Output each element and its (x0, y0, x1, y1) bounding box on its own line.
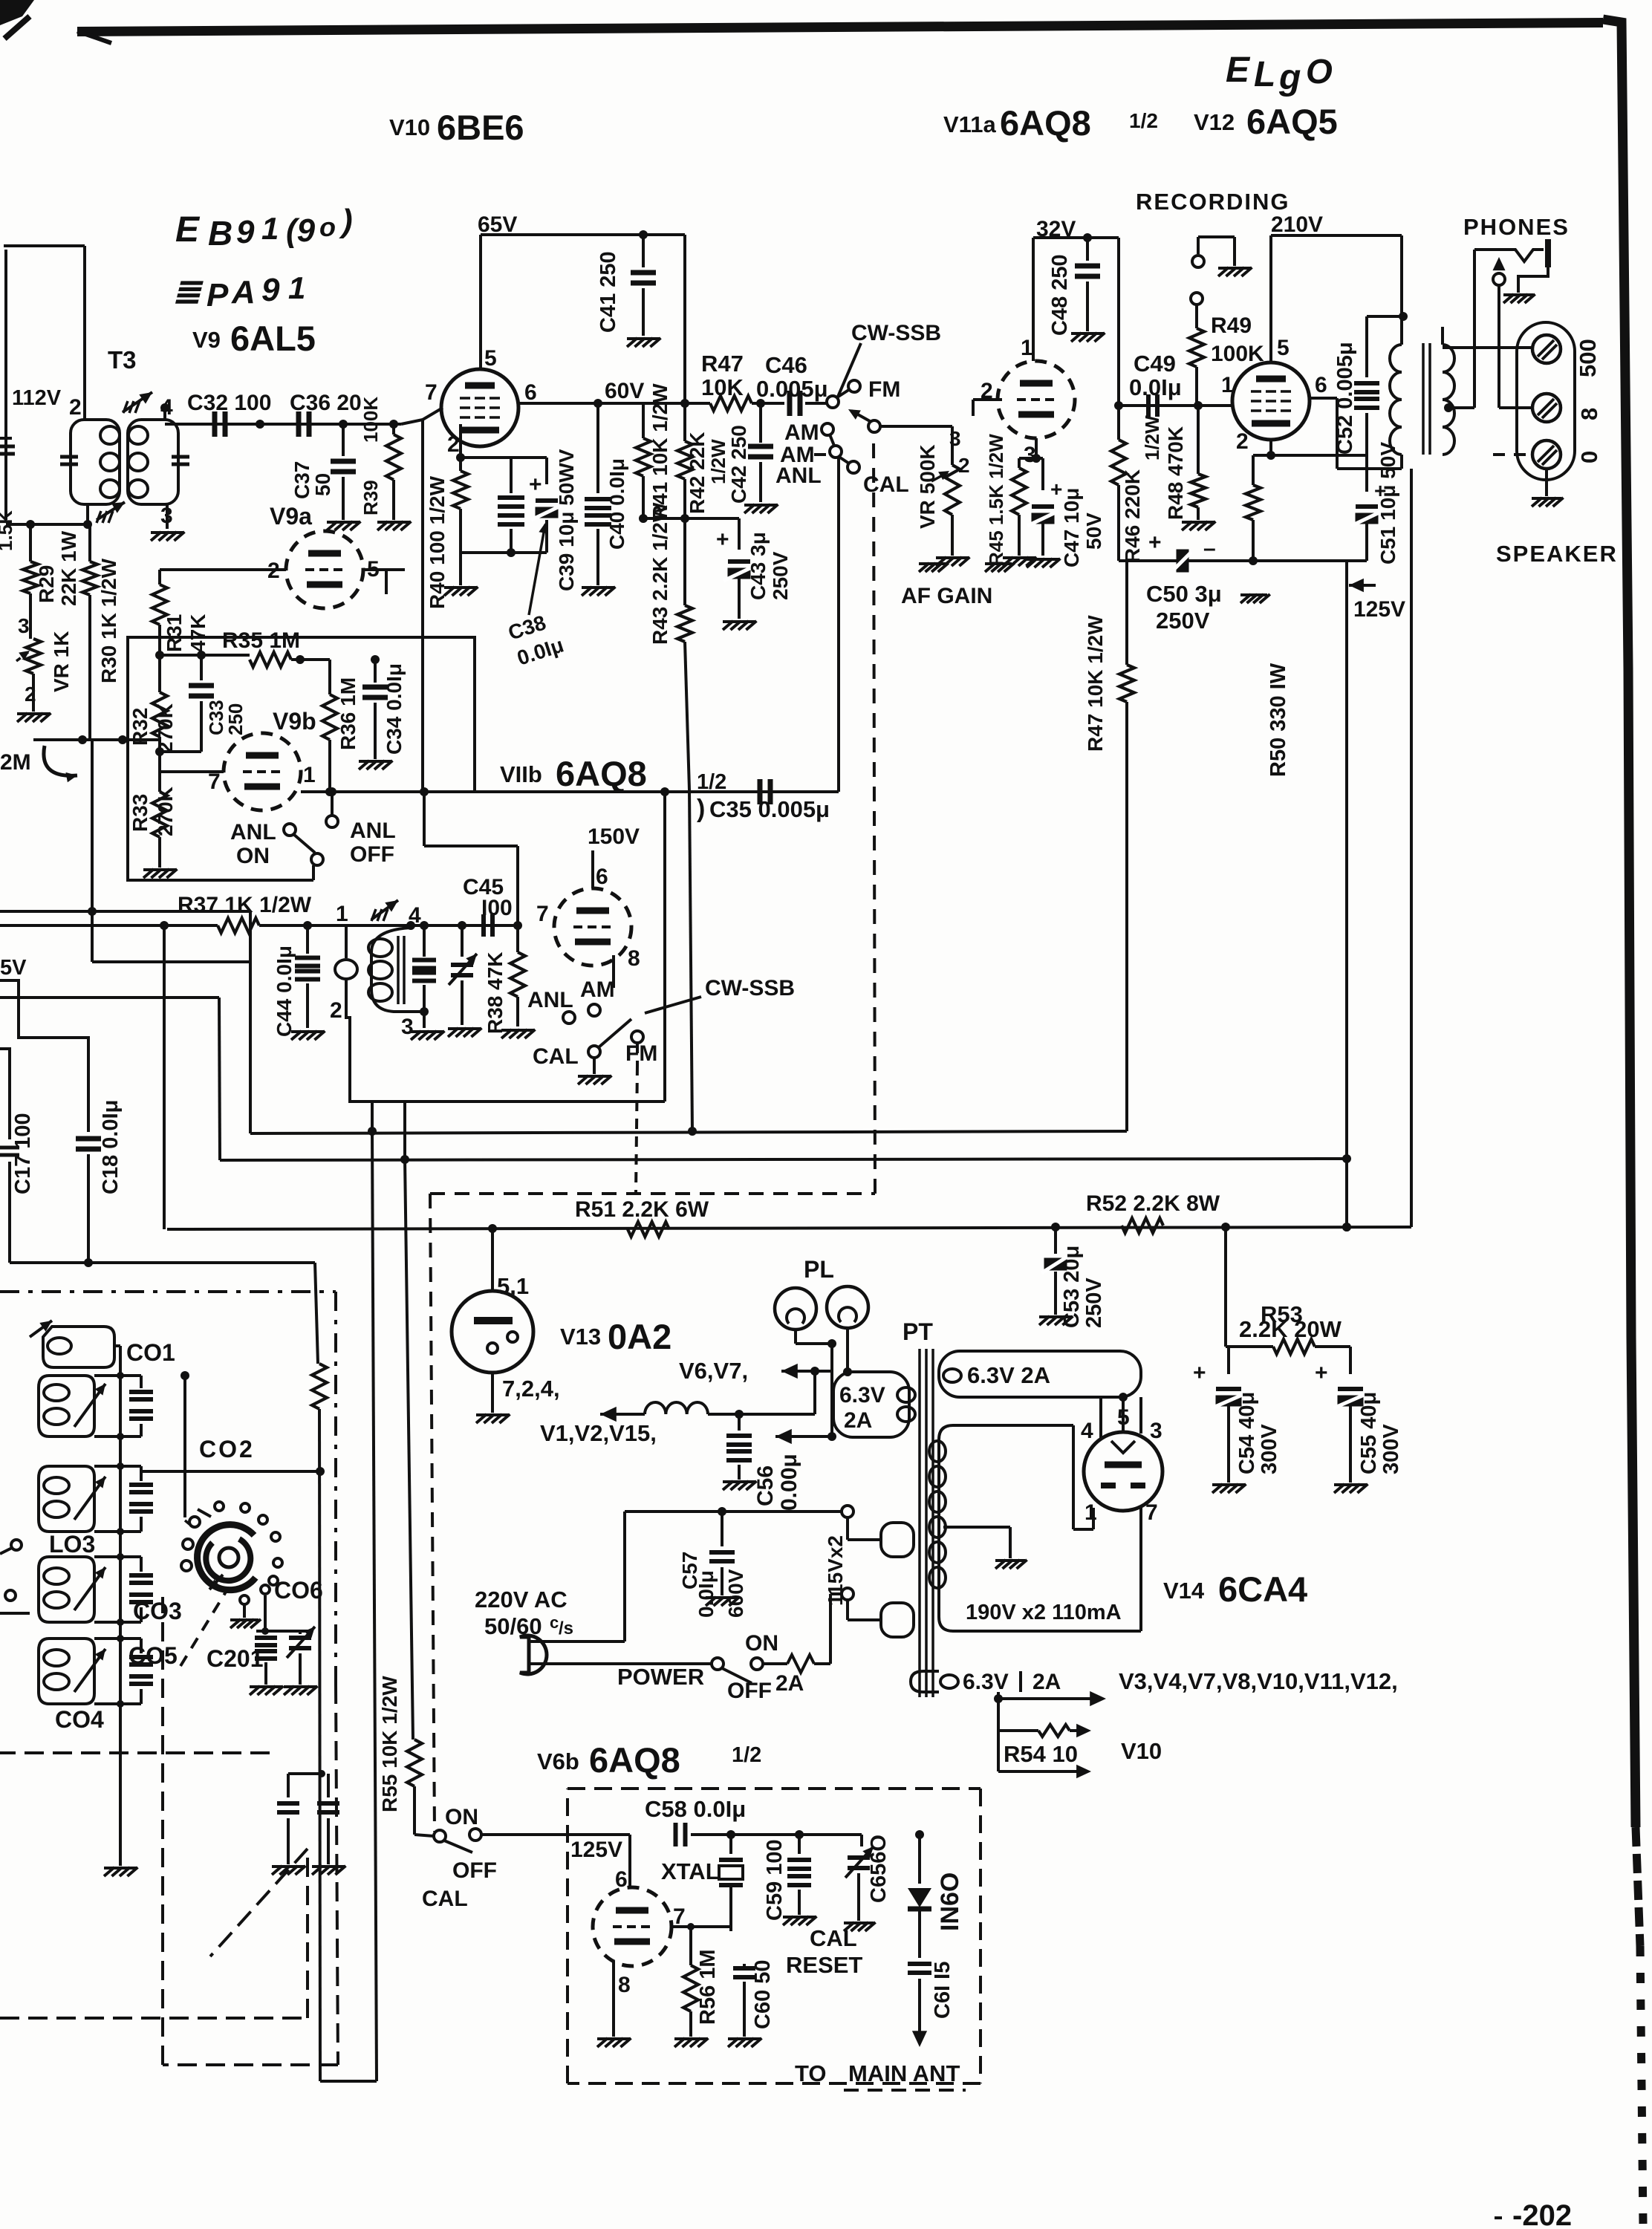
svg-text:6.3V: 6.3V (963, 1670, 1009, 1694)
svg-text:VR 1K: VR 1K (50, 631, 73, 692)
svg-text:7: 7 (536, 902, 549, 926)
svg-text:/s: /s (559, 1618, 573, 1639)
svg-text:C56: C56 (753, 1465, 778, 1506)
svg-text:8: 8 (1576, 408, 1602, 420)
svg-text:P: P (206, 277, 229, 313)
svg-text:C34 0.0Iμ: C34 0.0Iμ (383, 663, 406, 755)
svg-text:125V: 125V (570, 1838, 622, 1862)
svg-text:150V: 150V (588, 824, 640, 849)
svg-text:R36 1M: R36 1M (336, 677, 360, 750)
svg-text:PT: PT (903, 1318, 933, 1345)
svg-text:R47 10K 1/2W: R47 10K 1/2W (1084, 615, 1107, 752)
svg-text:A: A (231, 274, 256, 310)
svg-text:CO6: CO6 (274, 1577, 323, 1604)
svg-text:V10: V10 (389, 114, 430, 140)
svg-text:1: 1 (288, 270, 305, 305)
svg-text:R32: R32 (129, 708, 152, 746)
svg-text:7,2,4,: 7,2,4, (502, 1376, 560, 1402)
svg-text:C44 0.0Iμ: C44 0.0Iμ (273, 946, 296, 1037)
svg-text:PL: PL (804, 1256, 834, 1283)
svg-text:C37: C37 (290, 461, 313, 499)
svg-text:V6b: V6b (537, 1748, 579, 1774)
svg-text:1: 1 (261, 211, 279, 246)
svg-text:250V: 250V (769, 551, 792, 600)
svg-text:CAL: CAL (863, 472, 909, 497)
svg-text:ANL: ANL (527, 988, 573, 1012)
svg-text:1/2W: 1/2W (707, 439, 729, 484)
svg-text:V1,V2,V15,: V1,V2,V15, (540, 1420, 657, 1446)
svg-text:E: E (1226, 51, 1251, 90)
svg-text:8: 8 (618, 1973, 631, 1997)
svg-text:190V x2 110mA: 190V x2 110mA (966, 1601, 1122, 1624)
svg-text:2A: 2A (1032, 1670, 1061, 1694)
svg-text:R35 1M: R35 1M (222, 628, 300, 653)
svg-text:VIIb: VIIb (500, 761, 542, 787)
svg-text:C49: C49 (1134, 351, 1176, 377)
svg-text:300V: 300V (1258, 1424, 1281, 1474)
svg-text:R39: R39 (360, 480, 382, 515)
svg-text:POWER: POWER (617, 1664, 704, 1690)
svg-text:V9: V9 (192, 327, 221, 353)
svg-text:R48 470K: R48 470K (1164, 426, 1187, 520)
svg-text:-202: -202 (1512, 2199, 1572, 2229)
svg-text:6AQ8: 6AQ8 (1000, 103, 1091, 143)
svg-text:R30 1K 1/2W: R30 1K 1/2W (97, 558, 120, 683)
svg-text:R46 220K: R46 220K (1121, 469, 1144, 563)
svg-text:AM: AM (784, 420, 819, 445)
svg-text:TO: TO (795, 2060, 827, 2086)
svg-text:1/2: 1/2 (1129, 109, 1158, 132)
svg-text:R42 22K: R42 22K (686, 432, 709, 514)
svg-text:500: 500 (1575, 339, 1601, 377)
svg-text:2M: 2M (0, 750, 31, 775)
svg-text:210V: 210V (1271, 212, 1323, 237)
svg-text:2A: 2A (844, 1408, 872, 1433)
svg-text:V3,V4,V7,V8,V10,V11,V12,: V3,V4,V7,V8,V10,V11,V12, (1119, 1668, 1398, 1694)
svg-text:V10: V10 (1121, 1738, 1162, 1764)
svg-text:4: 4 (1081, 1419, 1093, 1443)
svg-text:g: g (1278, 58, 1301, 97)
svg-text:C201: C201 (206, 1645, 264, 1672)
svg-text:CAL: CAL (810, 1925, 857, 1951)
svg-text:CO2: CO2 (199, 1436, 255, 1462)
svg-text:CAL: CAL (533, 1044, 579, 1069)
svg-text:C6I I5: C6I I5 (931, 1962, 955, 2019)
svg-text:C43 3μ: C43 3μ (747, 532, 770, 600)
svg-text:3: 3 (949, 427, 961, 450)
svg-text:+: + (716, 527, 729, 552)
svg-text:R37 1K 1/2W: R37 1K 1/2W (178, 893, 312, 917)
svg-text:2A: 2A (775, 1671, 804, 1696)
svg-text:10K: 10K (701, 374, 744, 400)
svg-text:C42 250: C42 250 (727, 425, 750, 504)
svg-text:2: 2 (447, 432, 460, 457)
svg-text:C32 100: C32 100 (187, 391, 271, 415)
svg-text:R38 47K: R38 47K (484, 951, 507, 1034)
svg-text:0.00μ: 0.00μ (777, 1454, 801, 1511)
svg-text:C18 0.0Iμ: C18 0.0Iμ (99, 1100, 123, 1194)
svg-text:112V: 112V (12, 386, 62, 410)
svg-text:3: 3 (18, 614, 30, 637)
svg-text:C50 3μ: C50 3μ (1146, 581, 1222, 607)
svg-text:C41 250: C41 250 (596, 251, 620, 333)
svg-text:220V AC: 220V AC (475, 1587, 568, 1613)
svg-text:250V: 250V (1082, 1278, 1106, 1328)
svg-text:V6,V7,: V6,V7, (679, 1358, 748, 1384)
svg-text:E: E (175, 210, 201, 250)
svg-text:1: 1 (1221, 373, 1234, 397)
svg-text:T3: T3 (108, 346, 137, 374)
svg-text:6: 6 (596, 865, 608, 889)
svg-text:7: 7 (425, 380, 438, 405)
svg-text:6AL5: 6AL5 (230, 319, 316, 358)
svg-text:2.2K 20W: 2.2K 20W (1239, 1316, 1342, 1342)
svg-text:V11a: V11a (943, 111, 996, 137)
svg-text:CO1: CO1 (126, 1339, 175, 1366)
svg-text:I00: I00 (481, 896, 513, 920)
svg-text:V9a: V9a (270, 503, 312, 530)
svg-text:V13: V13 (560, 1324, 601, 1350)
svg-text:5: 5 (1277, 336, 1290, 360)
svg-text:R45 1.5K 1/2W: R45 1.5K 1/2W (985, 434, 1007, 566)
svg-text:4: 4 (409, 903, 421, 928)
svg-text:6.3V: 6.3V (839, 1383, 885, 1408)
svg-text:O: O (1306, 52, 1333, 91)
svg-text:R51 2.2K 6W: R51 2.2K 6W (575, 1197, 709, 1222)
svg-text:0: 0 (1576, 451, 1602, 463)
svg-text:5: 5 (484, 346, 497, 371)
svg-text:300V: 300V (1379, 1424, 1403, 1474)
svg-text:1.5K: 1.5K (0, 510, 16, 551)
svg-text:C54 40μ: C54 40μ (1235, 1392, 1259, 1474)
svg-text:C656O: C656O (867, 1835, 891, 1903)
svg-text:C40 0.0Iμ: C40 0.0Iμ (605, 458, 628, 550)
svg-text:): ) (697, 795, 705, 823)
svg-text:C52 0.005μ: C52 0.005μ (1333, 342, 1357, 455)
svg-text:RECORDING: RECORDING (1136, 189, 1290, 215)
svg-text:C39 10μ 50WV: C39 10μ 50WV (555, 449, 578, 591)
svg-text:6AQ8: 6AQ8 (589, 1740, 680, 1780)
svg-text:XTAL: XTAL (661, 1858, 720, 1884)
svg-text:50V: 50V (1082, 512, 1105, 550)
svg-text:C55 40μ: C55 40μ (1357, 1392, 1381, 1474)
svg-text:270K: 270K (154, 703, 177, 753)
svg-text:R54 10: R54 10 (1004, 1741, 1078, 1767)
svg-text:9: 9 (261, 272, 280, 308)
svg-text:47K: 47K (186, 614, 209, 652)
svg-text:R40 100 1/2W: R40 100 1/2W (426, 475, 449, 609)
svg-text:100K: 100K (360, 397, 382, 443)
svg-text:6AQ8: 6AQ8 (556, 754, 647, 793)
svg-text:LO3: LO3 (49, 1531, 95, 1558)
svg-text:9: 9 (236, 214, 255, 250)
svg-text:ON: ON (445, 1805, 478, 1829)
svg-text:1: 1 (1084, 1500, 1097, 1525)
svg-text:OFF: OFF (727, 1679, 772, 1703)
svg-text:C51 10μ 50V: C51 10μ 50V (1376, 442, 1399, 564)
svg-text:CAL: CAL (422, 1887, 468, 1911)
svg-text:C60 50: C60 50 (751, 1959, 775, 2029)
svg-text:+: + (1193, 1361, 1206, 1385)
svg-text:R43 2.2K 1/2W: R43 2.2K 1/2W (648, 502, 671, 645)
svg-text:CW-SSB: CW-SSB (705, 976, 795, 1000)
svg-text:2: 2 (330, 998, 342, 1023)
svg-text:R47: R47 (701, 351, 744, 377)
svg-text:0.0Iμ: 0.0Iμ (695, 1570, 718, 1618)
svg-text:0A2: 0A2 (608, 1317, 671, 1356)
svg-text:+: + (1315, 1361, 1328, 1385)
svg-text:MAIN ANT: MAIN ANT (848, 2060, 960, 2086)
svg-text:OFF: OFF (350, 842, 394, 867)
svg-text:50: 50 (311, 473, 334, 496)
svg-text:CO4: CO4 (55, 1706, 104, 1733)
svg-text:3: 3 (1150, 1419, 1162, 1443)
svg-text:6: 6 (1315, 373, 1327, 397)
svg-text:C47 10μ: C47 10μ (1060, 488, 1083, 567)
svg-text:1/2W: 1/2W (1141, 415, 1163, 461)
svg-text:1: 1 (303, 763, 316, 787)
svg-text:6.3V 2A: 6.3V 2A (967, 1362, 1050, 1388)
svg-text:RESET: RESET (786, 1952, 862, 1978)
svg-text:OFF: OFF (452, 1858, 497, 1883)
svg-text:≣: ≣ (172, 272, 204, 310)
svg-text:6: 6 (524, 380, 537, 405)
svg-text:2: 2 (69, 395, 82, 420)
svg-text:c: c (550, 1613, 559, 1632)
svg-text:C48 250: C48 250 (1048, 254, 1072, 336)
svg-text:C46: C46 (765, 352, 807, 378)
svg-text:3: 3 (401, 1015, 414, 1039)
svg-text:C58 0.0Iμ: C58 0.0Iμ (645, 1796, 746, 1822)
svg-text:1: 1 (336, 902, 348, 926)
svg-text:8: 8 (628, 946, 640, 971)
svg-text:(9: (9 (286, 212, 316, 249)
svg-text:R56 1M: R56 1M (696, 1949, 720, 2025)
svg-text:ANL: ANL (230, 820, 276, 845)
svg-text:1/2: 1/2 (732, 1743, 761, 1767)
svg-text:7: 7 (1145, 1500, 1158, 1525)
svg-text:V14: V14 (1163, 1578, 1205, 1604)
svg-text:6CA4: 6CA4 (1218, 1569, 1307, 1609)
svg-text:600V: 600V (724, 1569, 747, 1618)
svg-text:2: 2 (958, 454, 970, 477)
svg-text:IN6O: IN6O (936, 1872, 964, 1931)
svg-text:V9b: V9b (273, 708, 316, 735)
svg-text:C53 20μ: C53 20μ (1060, 1246, 1084, 1328)
svg-text:L: L (1254, 55, 1275, 94)
svg-text:CO3: CO3 (133, 1598, 182, 1624)
svg-text:ON: ON (236, 844, 270, 868)
svg-text:R41 10K 1/2W: R41 10K 1/2W (648, 383, 671, 520)
svg-text:60V: 60V (605, 379, 644, 403)
svg-text:R33: R33 (129, 794, 152, 832)
svg-text:2: 2 (1236, 429, 1249, 454)
svg-text:FM: FM (868, 377, 900, 402)
svg-text:22K 1W: 22K 1W (57, 530, 80, 606)
svg-text:AM: AM (580, 977, 615, 1002)
svg-text:VR 500K: VR 500K (916, 444, 939, 529)
svg-text:100K: 100K (1211, 342, 1264, 366)
svg-text:B: B (208, 214, 232, 253)
svg-text:FM: FM (625, 1041, 657, 1066)
svg-text:+: + (529, 472, 542, 497)
svg-text:250V: 250V (1156, 608, 1210, 634)
svg-text:270K: 270K (154, 787, 177, 836)
svg-text:+: + (1148, 530, 1162, 555)
svg-text:SPEAKER: SPEAKER (1496, 541, 1618, 567)
svg-text:C59 100: C59 100 (763, 1839, 787, 1921)
svg-text:250: 250 (224, 703, 247, 735)
svg-text:ANL: ANL (775, 463, 822, 488)
svg-text:R50 330 IW: R50 330 IW (1266, 663, 1290, 777)
svg-text:C17 100: C17 100 (11, 1113, 35, 1194)
svg-text:1: 1 (1021, 336, 1033, 360)
svg-text:R52 2.2K 8W: R52 2.2K 8W (1086, 1191, 1220, 1216)
svg-text:R55 10K 1/2W: R55 10K 1/2W (378, 1676, 401, 1812)
svg-text:125V: 125V (1353, 597, 1405, 622)
svg-text:R29: R29 (35, 565, 58, 603)
svg-text:–: – (1203, 536, 1216, 561)
svg-text:AF GAIN: AF GAIN (901, 584, 992, 608)
svg-text:ANL: ANL (350, 819, 396, 843)
svg-text:6: 6 (615, 1867, 628, 1892)
svg-text:R49: R49 (1211, 313, 1252, 338)
svg-text:CO5: CO5 (129, 1642, 178, 1669)
svg-text:V12: V12 (1194, 109, 1235, 135)
svg-text:6BE6: 6BE6 (437, 108, 524, 147)
svg-text:o: o (319, 212, 336, 242)
svg-text:R31: R31 (163, 614, 186, 652)
svg-text:PHONES: PHONES (1463, 214, 1570, 240)
svg-text:5V: 5V (0, 956, 27, 980)
svg-text:6AQ5: 6AQ5 (1246, 102, 1338, 141)
svg-text:CW-SSB: CW-SSB (851, 321, 941, 345)
svg-text:ON: ON (745, 1631, 778, 1656)
